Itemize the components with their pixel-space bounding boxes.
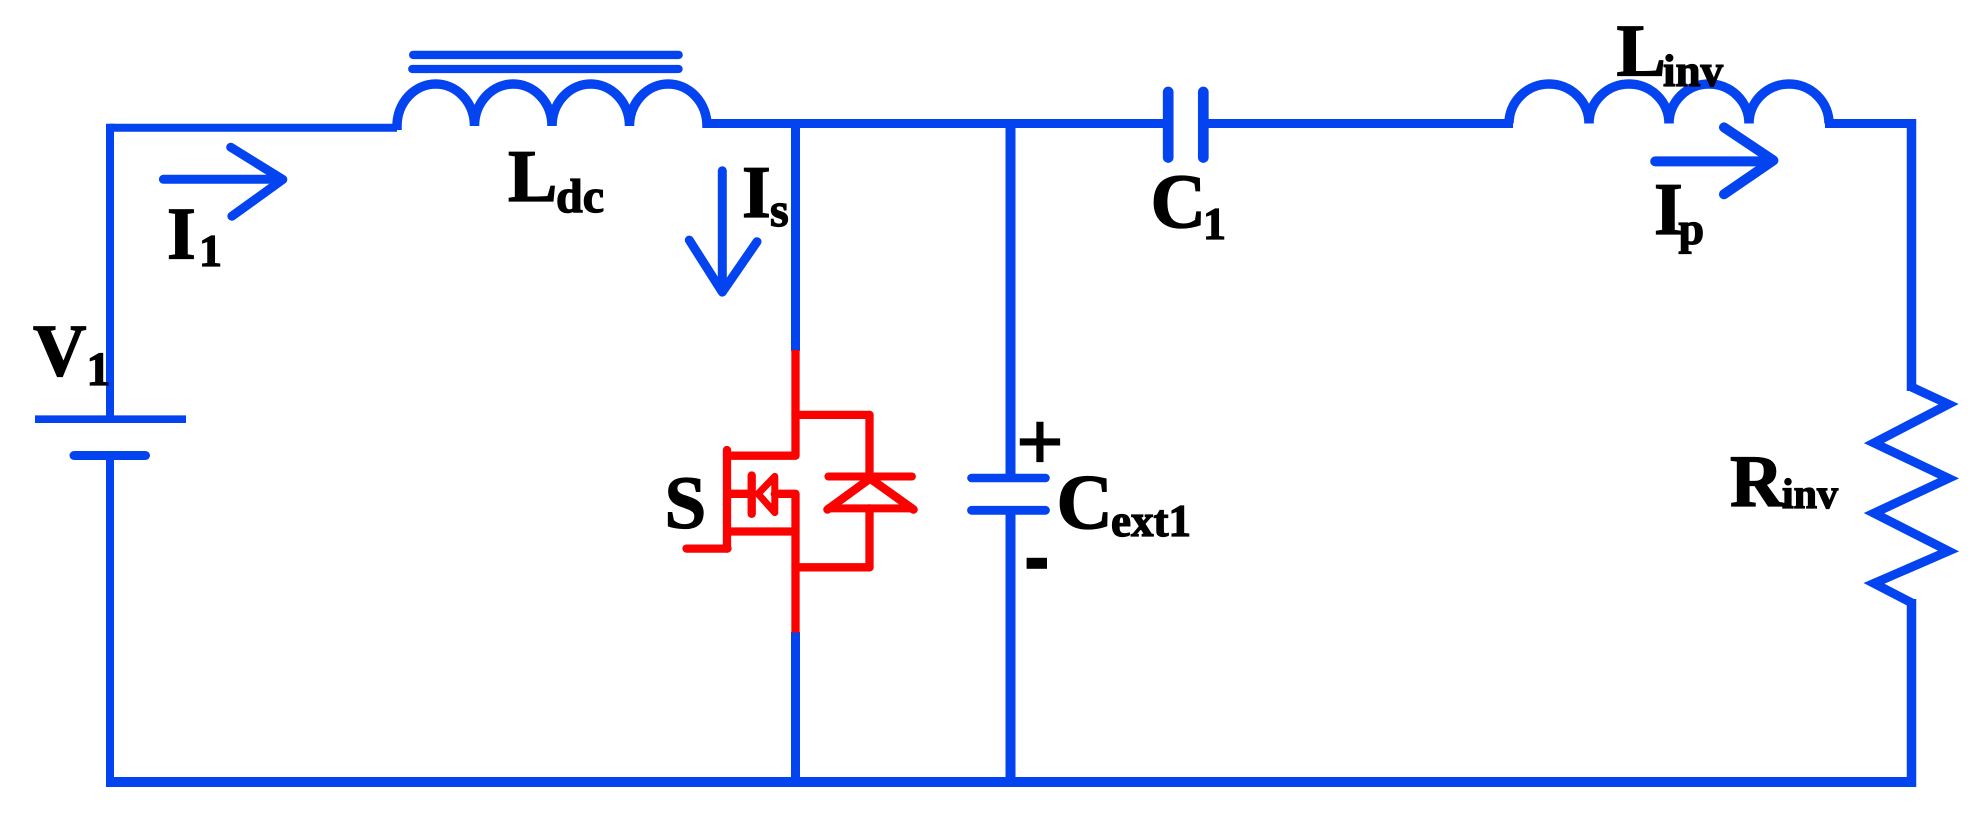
arrow I1	[163, 147, 282, 216]
inductor L_dc winding	[397, 84, 707, 130]
wire switch vertical bottom	[791, 632, 800, 787]
wire top-right to corner	[1825, 119, 1912, 128]
wire right vertical below R_inv	[1907, 599, 1917, 787]
resistor R_inv zigzag	[1874, 387, 1949, 603]
capacitor C_ext1 bottom plate	[972, 506, 1046, 515]
svg-text:C: C	[1151, 158, 1207, 244]
battery V1 top plate	[35, 415, 186, 423]
transistor S lower vertical / source lead	[791, 494, 799, 633]
capacitor C1 right plate	[1198, 92, 1209, 158]
transistor S gate middle right segment	[775, 490, 796, 498]
wire left vertical below battery	[106, 456, 114, 784]
transistor S middle arrow triangle	[758, 476, 775, 512]
transistor S box left vertical	[723, 450, 731, 549]
capacitor C1 left plate	[1163, 92, 1174, 158]
transistor S gate middle left segment	[727, 490, 752, 498]
wire top middle from L_dc to C1	[703, 119, 1164, 128]
transistor S box bottom	[727, 527, 796, 535]
svg-text:I: I	[742, 152, 771, 234]
wire right vertical above R_inv	[1907, 119, 1917, 391]
arrow Ip	[1655, 127, 1773, 194]
svg-text:inv: inv	[1782, 472, 1838, 518]
wire C_ext1 bottom vertical	[1006, 510, 1016, 787]
transistor S middle bar	[748, 476, 756, 514]
svg-text:1: 1	[199, 225, 222, 276]
transistor S terminal lead	[687, 544, 728, 552]
transistor S box top	[727, 452, 796, 460]
svg-text:dc: dc	[556, 170, 604, 223]
inductor L_inv winding	[1509, 84, 1829, 123]
diode branch right vertical upper	[865, 415, 873, 477]
diode triangle	[828, 479, 914, 510]
svg-text:I: I	[167, 194, 196, 276]
svg-text:S: S	[665, 462, 707, 545]
svg-text:C: C	[1057, 458, 1113, 545]
svg-text:1: 1	[87, 343, 111, 396]
wire C_ext1 top vertical	[1006, 119, 1016, 474]
svg-text:R: R	[1730, 441, 1785, 523]
wire switch vertical top (node between L_dc and C1)	[791, 119, 800, 351]
diode branch right vertical lower	[865, 508, 873, 567]
svg-text:s: s	[770, 184, 789, 237]
wire bottom horizontal	[106, 777, 1913, 787]
diode anode bar	[828, 504, 912, 512]
svg-text:1: 1	[1203, 198, 1226, 249]
inductor L_dc core bar 1	[413, 51, 678, 59]
svg-text:ext1: ext1	[1111, 496, 1191, 546]
svg-text:L: L	[1617, 10, 1666, 92]
wire top-left horizontal from V1 to L_dc	[110, 124, 397, 132]
transistor S drain lead (red)	[791, 350, 799, 456]
inductor L_dc core bar 2	[412, 65, 678, 73]
capacitor C_ext1 top plate	[972, 474, 1046, 483]
diode branch top horizontal	[796, 411, 870, 419]
battery V1 bottom plate	[74, 451, 146, 460]
svg-text:L: L	[508, 136, 557, 218]
label minus	[1027, 558, 1047, 569]
wire top from C1 to L_inv	[1208, 119, 1513, 128]
wire left vertical above battery	[106, 124, 114, 419]
diode branch bottom horizontal	[796, 563, 870, 571]
svg-text:V: V	[33, 310, 86, 392]
svg-text:inv: inv	[1663, 46, 1724, 96]
arrow Is	[689, 171, 757, 292]
diode cathode bar	[828, 473, 912, 481]
svg-text:p: p	[1679, 203, 1705, 254]
